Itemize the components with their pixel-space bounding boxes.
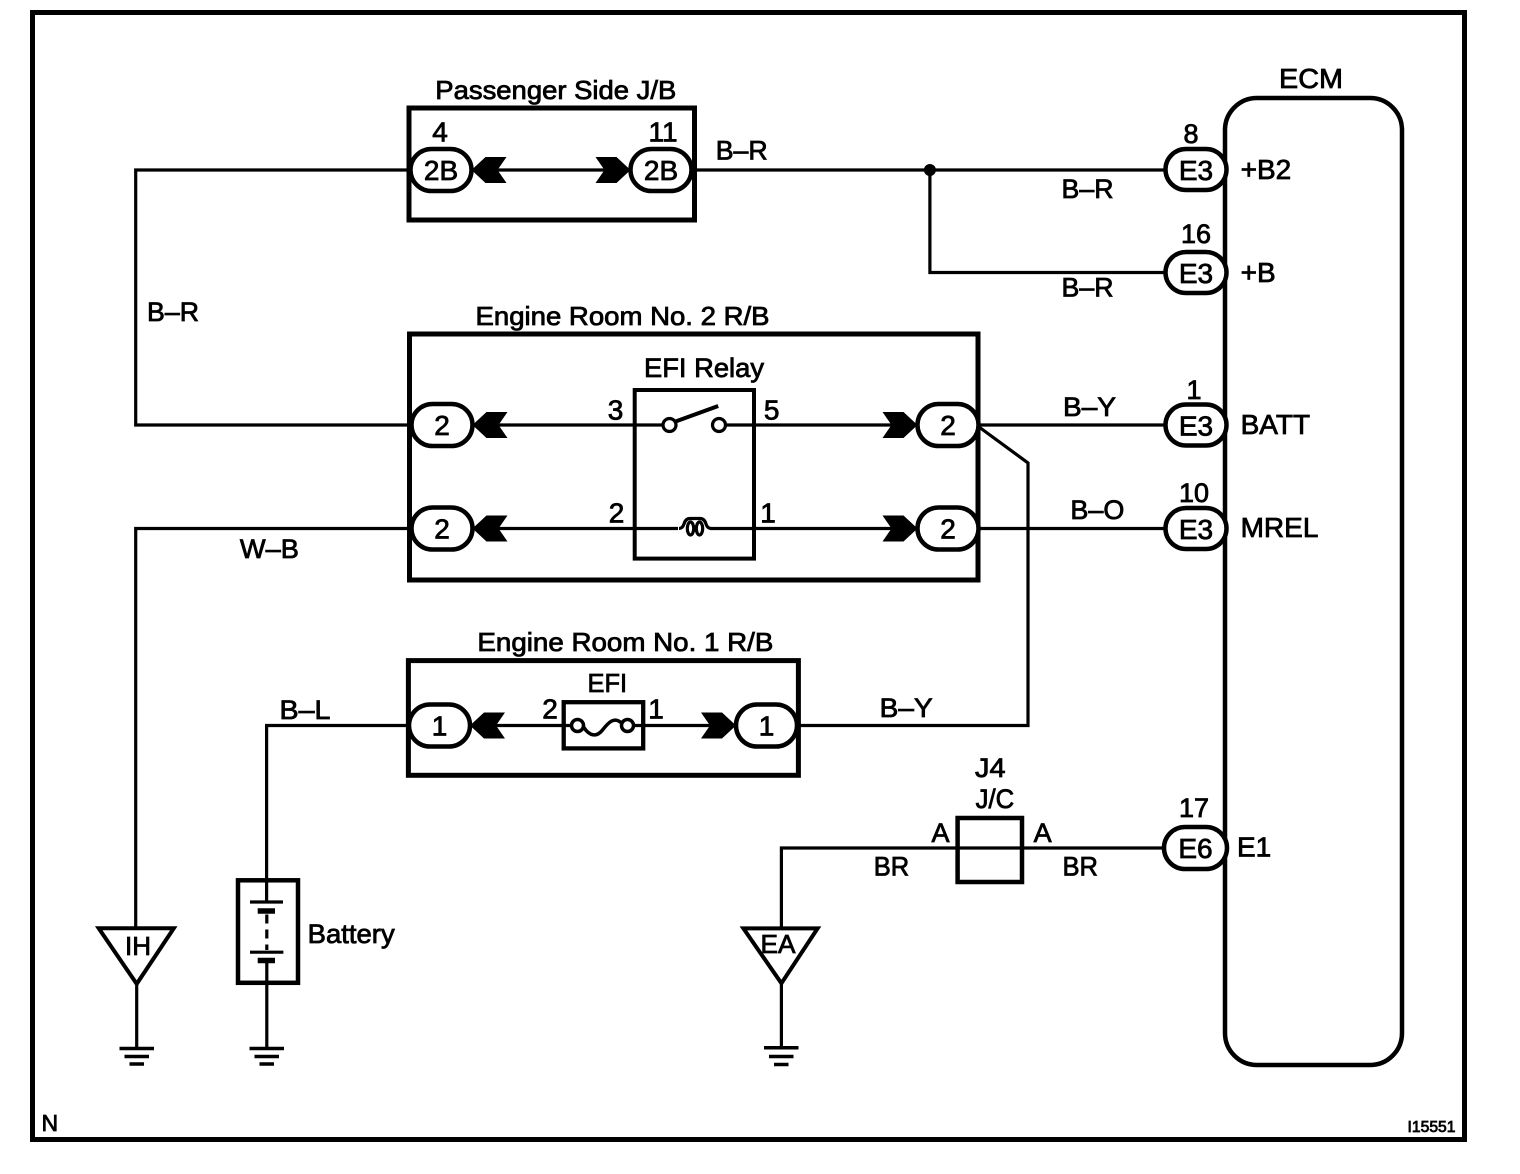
wire B-Y from EFI fuse to relay contact (diagonal): [798, 427, 1028, 726]
svg-text:B–R: B–R: [1062, 273, 1114, 303]
ground (EA): [764, 1048, 799, 1065]
Passenger Side J/B box: [409, 108, 695, 220]
fuse contact right: [622, 720, 634, 732]
svg-text:2: 2: [940, 514, 956, 545]
svg-text:+B2: +B2: [1241, 154, 1292, 185]
arrow right (Passenger J/B): [596, 157, 631, 183]
svg-text:BR: BR: [874, 852, 910, 882]
svg-text:1: 1: [648, 694, 664, 725]
fuse element: [584, 720, 622, 735]
svg-text:2: 2: [434, 410, 450, 441]
svg-text:+B: +B: [1241, 257, 1276, 288]
svg-text:8: 8: [1183, 119, 1198, 149]
connector 1 (left): [409, 705, 470, 747]
relay switch contact 5: [713, 419, 726, 432]
Engine Room No.1 R/B box: [408, 661, 798, 776]
svg-text:E3: E3: [1179, 514, 1213, 545]
wire B-Y relay to BATT: [979, 423, 1166, 426]
arrow right (relay top): [883, 412, 918, 438]
relay coil: [679, 519, 711, 529]
svg-text:1: 1: [432, 711, 448, 742]
wire relay top row: [473, 423, 664, 426]
wire BR from EA ground via J4 to ECM E1: [781, 848, 1164, 928]
ground (battery): [250, 1049, 285, 1065]
wire relay bottom row: [473, 527, 679, 530]
svg-text:Engine Room No. 1 R/B: Engine Room No. 1 R/B: [477, 627, 773, 657]
arrow right (fuse): [701, 713, 736, 739]
battery top plate short: [258, 908, 275, 914]
svg-text:ECM: ECM: [1279, 63, 1343, 94]
wire battery to ground: [265, 961, 268, 1049]
svg-text:B–L: B–L: [280, 695, 331, 725]
connector 1 (right): [736, 705, 797, 747]
svg-text:1: 1: [1186, 375, 1201, 405]
svg-text:11: 11: [648, 117, 677, 148]
ground (IH): [120, 1049, 155, 1065]
svg-text:A: A: [1034, 818, 1052, 848]
connector 2 (top-right): [918, 404, 979, 446]
fuse contact left: [572, 720, 584, 732]
relay switch blade: [675, 406, 718, 422]
svg-text:EFI Relay: EFI Relay: [644, 353, 764, 383]
junction node: [924, 164, 936, 176]
connector 2B pin 4: [411, 149, 472, 191]
connector 2 (bottom-left): [412, 508, 473, 550]
battery: [238, 880, 298, 983]
svg-text:Engine Room No. 2 R/B: Engine Room No. 2 R/B: [476, 301, 770, 331]
wire B-R from Passenger J/B right to ECM +B2: [692, 168, 1166, 171]
svg-text:A: A: [932, 818, 950, 848]
ECM body: [1225, 98, 1402, 1065]
svg-text:IH: IH: [125, 931, 151, 961]
connector 2 (top-left): [412, 404, 473, 446]
svg-text:2: 2: [542, 694, 558, 725]
ground triangle EA: [743, 928, 817, 983]
battery top plate long: [250, 900, 283, 903]
arrow left (fuse): [470, 713, 505, 739]
svg-text:1: 1: [759, 711, 775, 742]
svg-text:2: 2: [434, 514, 450, 545]
connector E6 pin 17 (E1): [1164, 827, 1227, 869]
svg-text:BATT: BATT: [1241, 409, 1310, 440]
svg-text:10: 10: [1179, 478, 1209, 508]
wire EA to ground: [780, 983, 783, 1047]
connector 2B pin 11: [631, 149, 692, 191]
arrow right (relay bottom): [883, 516, 918, 542]
wire B-O relay to MREL: [979, 527, 1166, 530]
svg-text:E3: E3: [1179, 155, 1213, 186]
svg-text:1: 1: [760, 498, 776, 529]
Engine Room No.2 R/B box: [410, 334, 979, 580]
svg-text:B–R: B–R: [1062, 174, 1114, 204]
svg-text:5: 5: [764, 395, 780, 426]
svg-text:N: N: [42, 1110, 59, 1136]
svg-text:BR: BR: [1063, 852, 1099, 882]
svg-text:I15551: I15551: [1408, 1119, 1456, 1136]
svg-text:17: 17: [1179, 793, 1209, 823]
svg-text:E6: E6: [1178, 833, 1212, 864]
svg-text:E1: E1: [1237, 832, 1271, 863]
battery dashed center: [265, 915, 268, 951]
wire W-B from relay box left to IH ground: [136, 529, 412, 929]
wire fuse row: [470, 724, 573, 727]
EFI relay box: [635, 390, 754, 559]
svg-text:EA: EA: [761, 929, 797, 959]
battery bottom plate short: [258, 958, 275, 964]
arrow left (relay bottom): [473, 516, 508, 542]
svg-text:B–Y: B–Y: [1063, 392, 1116, 422]
EFI fuse box: [564, 702, 644, 748]
svg-text:4: 4: [432, 117, 448, 148]
svg-text:J4: J4: [975, 753, 1006, 783]
svg-text:2: 2: [940, 410, 956, 441]
battery bottom plate long: [250, 951, 283, 954]
svg-text:2B: 2B: [644, 155, 678, 186]
arrow left (Passenger J/B): [472, 157, 507, 183]
wire IH to ground: [135, 984, 138, 1048]
svg-text:2B: 2B: [424, 155, 458, 186]
svg-text:Passenger Side J/B: Passenger Side J/B: [435, 75, 676, 105]
svg-text:16: 16: [1181, 219, 1211, 249]
svg-text:B–O: B–O: [1070, 495, 1124, 525]
svg-text:B–R: B–R: [147, 297, 199, 327]
svg-text:Battery: Battery: [308, 919, 395, 949]
wire inside Passenger J/B: [472, 168, 631, 171]
svg-text:2: 2: [609, 498, 625, 529]
wire B-R from Passenger J/B left to Engine Room No.2 R/B: [136, 170, 412, 425]
svg-text:3: 3: [608, 395, 624, 426]
relay switch contact 3: [663, 419, 676, 432]
svg-text:EFI: EFI: [588, 668, 628, 698]
svg-text:MREL: MREL: [1241, 512, 1319, 543]
svg-text:W–B: W–B: [240, 534, 299, 564]
arrow left (relay top): [473, 412, 508, 438]
wire branch to +B: [930, 170, 1166, 273]
J4 junction connector: [958, 818, 1022, 882]
svg-text:B–R: B–R: [716, 136, 768, 166]
connector E3 pin 10 (MREL): [1166, 508, 1227, 549]
connector E3 pin 8 (+B2): [1166, 149, 1227, 190]
connector 2 (bottom-right): [918, 508, 979, 550]
svg-text:J/C: J/C: [976, 784, 1015, 814]
wire B-L from Engine Room No.1 to battery: [267, 726, 409, 903]
connector E3 pin 16 (+B): [1166, 252, 1227, 293]
ground triangle IH: [99, 928, 174, 984]
svg-text:B–Y: B–Y: [880, 693, 933, 723]
svg-text:E3: E3: [1179, 258, 1213, 289]
svg-text:E3: E3: [1179, 411, 1213, 442]
connector E3 pin 1 (BATT): [1166, 405, 1227, 446]
